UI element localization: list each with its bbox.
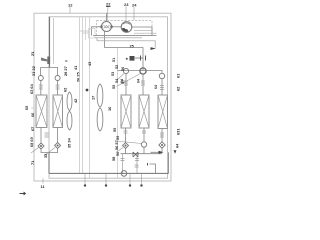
wire EV join header: [41, 149, 58, 153]
wire HX1R to D1: [124, 128, 128, 143]
solenoid valve SV1: [126, 56, 146, 61]
label 23 top: [124, 2, 129, 21]
label 35: [67, 137, 72, 148]
leader to RV2: [117, 74, 141, 87]
valve V1: [38, 76, 43, 81]
svg-text:64: 64: [154, 85, 158, 89]
valve V2: [55, 76, 60, 81]
fan F2: [97, 84, 103, 131]
label col mid left: [76, 71, 81, 82]
wire third pipe with arrow: [97, 38, 155, 48]
svg-text:50: 50: [115, 152, 120, 156]
wire compressor right elbow: [132, 27, 152, 36]
wire D1 drop: [125, 149, 127, 154]
wire center pipe b: [82, 17, 84, 173]
wire RV1 drop: [124, 74, 128, 95]
svg-text:11: 11: [41, 184, 46, 189]
wire bottom bus: [49, 172, 169, 174]
wire D2 elbow: [151, 148, 163, 152]
wire 4wv bottom: [105, 31, 144, 47]
expansion valve D1: [123, 143, 129, 149]
left margin labels: [30, 51, 35, 56]
heat exchanger HX3R: [158, 95, 168, 129]
svg-text:35 34: 35 34: [67, 137, 72, 148]
svg-text:57: 57: [121, 80, 125, 84]
svg-text:51: 51: [112, 58, 116, 62]
svg-text:28 27: 28 27: [63, 66, 68, 76]
svg-text:56 57: 56 57: [114, 140, 119, 150]
wire C2 drop: [143, 147, 145, 154]
wire HX3R to D2: [160, 129, 164, 142]
tick marks near bus: [135, 165, 139, 167]
wire liquid drop: [48, 153, 50, 174]
svg-text:56: 56: [121, 67, 125, 71]
label 24 top: [132, 3, 137, 21]
wire left header: [41, 67, 59, 69]
label 26 mid: [63, 66, 68, 76]
fan F1: [67, 92, 72, 130]
label 11 bottom: [42, 178, 44, 183]
label col inner mid: [112, 58, 116, 62]
wire jog to bus right: [150, 164, 156, 173]
svg-text:31 32: 31 32: [31, 65, 36, 76]
valve RV3: [159, 73, 164, 78]
leader b2: [105, 173, 107, 186]
svg-text:52: 52: [115, 65, 119, 69]
heat exchanger HX1: [36, 95, 47, 128]
wire right bus: [121, 153, 163, 155]
strainer V1: [39, 81, 43, 96]
svg-text:55: 55: [112, 127, 117, 132]
leader b1: [84, 173, 86, 186]
wire drop to valve V1: [40, 68, 42, 76]
svg-text:53: 53: [111, 72, 115, 76]
wire left down pipe B: [53, 18, 55, 64]
wire bus stub2: [135, 154, 139, 174]
label leader EV1: [31, 148, 39, 154]
label leader EV2: [44, 148, 55, 156]
wire second header pipe: [95, 37, 142, 39]
label 12 top: [68, 3, 73, 14]
leader dashes left edge: [31, 54, 35, 144]
wire center pipe a: [79, 17, 81, 173]
svg-text:68 69: 68 69: [29, 136, 34, 147]
svg-text:55: 55: [112, 85, 116, 89]
four-way valve U22: [100, 22, 113, 32]
expansion valve EV1: [38, 143, 44, 149]
svg-text:23: 23: [124, 2, 129, 7]
label 1 bottom left: [20, 192, 26, 195]
svg-text:16: 16: [107, 106, 112, 111]
wire RV2 drop: [141, 74, 145, 95]
compressor U23: [121, 22, 132, 33]
svg-text:65: 65: [24, 105, 29, 110]
svg-text:63 64: 63 64: [29, 83, 34, 94]
heat exchanger HX2: [53, 95, 63, 128]
svg-text:12: 12: [68, 3, 73, 8]
svg-text:42: 42: [73, 98, 78, 103]
compressor unit box: [97, 21, 153, 36]
wire 4wv top: [106, 13, 108, 21]
leader to C2: [117, 141, 142, 144]
leader to RV1: [117, 74, 124, 81]
right liquid header: [118, 71, 163, 74]
wire HX1 to EV1: [40, 128, 42, 144]
leader b4: [140, 173, 142, 186]
pump P on bus: [121, 171, 127, 177]
check valve on bus: [133, 152, 138, 157]
label arrow right: [174, 150, 177, 154]
wire left down pipe A: [49, 17, 51, 68]
svg-text:41: 41: [73, 65, 78, 70]
leader to D1: [117, 148, 124, 153]
divider line right: [117, 47, 119, 178]
wire RV3 drop: [160, 79, 164, 95]
svg-text:62: 62: [63, 87, 68, 92]
divider line left: [89, 17, 91, 178]
strainer V2: [56, 81, 60, 96]
wire center pipe tops: [80, 31, 89, 33]
inner unit box: [49, 17, 168, 178]
label col right top: [176, 73, 181, 78]
expansion valve EV2: [55, 143, 61, 149]
expansion valve D2: [159, 142, 165, 148]
valve RV1: [123, 68, 128, 73]
component muffler on pipe: [47, 57, 50, 65]
valve RV2: [140, 68, 146, 74]
wire center pipe c: [85, 17, 87, 40]
heat exchanger HX1R: [121, 95, 131, 128]
mini labels at drops: [120, 79, 124, 83]
svg-text:22: 22: [106, 2, 111, 7]
label 22 top: [106, 2, 111, 22]
wire HX2 to EV2: [57, 128, 59, 143]
wire 4wv to compressor: [112, 26, 122, 28]
wire right vert to bus: [168, 152, 170, 173]
leader b3: [129, 173, 131, 186]
heat exchanger HX2R: [139, 95, 149, 128]
svg-text:64: 64: [137, 79, 141, 83]
wire main header pipe: [93, 35, 157, 37]
label col left pipes: [73, 65, 78, 70]
node fan label dot: [86, 89, 89, 92]
label col right bottom: [176, 128, 181, 135]
svg-text:24: 24: [132, 3, 137, 8]
svg-text:61: 61: [176, 73, 181, 78]
strainer mid: [45, 133, 49, 137]
svg-text:631: 631: [176, 128, 181, 135]
wire drop to valve V2: [57, 68, 59, 76]
arrow right mid: [159, 151, 164, 154]
svg-text:64: 64: [175, 143, 180, 148]
node arrow dot 25: [151, 47, 157, 50]
label fan1 top: [63, 87, 68, 92]
coil lines right of compressor: [134, 29, 152, 31]
valve C2: [141, 142, 146, 147]
outer unit box: [34, 13, 171, 181]
wire right drop pipe: [142, 47, 144, 70]
wire 4wv left elbow: [92, 27, 102, 36]
wire HX2R to C2: [142, 128, 146, 142]
wire bus stub1: [121, 154, 125, 174]
svg-text:17: 17: [91, 96, 96, 100]
svg-text:62: 62: [176, 86, 181, 91]
